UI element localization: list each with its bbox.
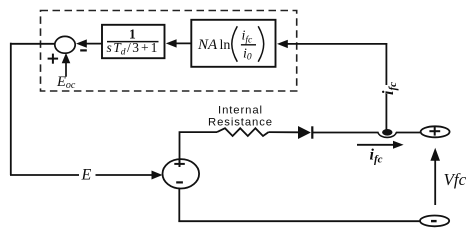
transfer function block 1/(sTd/3+1) — [102, 25, 165, 58]
label ifc (rotated) on sense wire — [380, 82, 399, 95]
wire from source top to main rail — [180, 132, 218, 158]
svg-text:Internal: Internal — [218, 105, 263, 117]
wire: ifc sense vertical — [385, 43, 387, 131]
svg-text:Resistance: Resistance — [208, 116, 273, 128]
wire from resistor to diode — [269, 131, 299, 133]
svg-text:NA: NA — [197, 37, 218, 53]
svg-text:ln: ln — [220, 38, 231, 53]
wire: left feedback horizontal into summing junction — [10, 43, 56, 45]
resistor R_internal zigzag — [217, 128, 269, 136]
arrow E_oc into summing junction — [62, 53, 71, 77]
bottom rail wire — [178, 220, 420, 222]
wire: E wire bottom-left horizontal — [10, 174, 156, 176]
svg-text:E: E — [81, 166, 92, 183]
arrowhead into source from E wire — [152, 171, 163, 180]
plus output terminal — [421, 126, 450, 137]
minus output terminal — [420, 216, 449, 227]
voltage source E circle — [163, 159, 200, 188]
wire + arrowhead from transfer block into summing junction — [76, 39, 102, 47]
wire: left feedback vertical — [10, 43, 12, 175]
activation-loss block NA ln(ifc/i0) — [191, 20, 275, 67]
wire + arrowhead from NA-ln block into transfer block — [166, 39, 191, 47]
arrow Vfc — [430, 148, 440, 205]
arrow ifc current direction — [357, 141, 404, 149]
label Internal Resistance — [208, 105, 273, 129]
summing junction — [55, 36, 75, 53]
junction node dot — [382, 129, 392, 136]
wire from hop to plus terminal — [396, 132, 421, 134]
diode D1 — [299, 126, 313, 138]
wire from diode to hop — [313, 132, 379, 134]
label E — [79, 166, 96, 183]
wire from source bottom to bottom rail — [178, 188, 180, 222]
dashed subsystem box — [41, 11, 297, 92]
wire + arrowhead from ifc sense line into NA-ln block — [277, 40, 387, 48]
svg-text:Vfc: Vfc — [444, 170, 467, 189]
plus sign at summing junction — [48, 54, 59, 64]
svg-text:sTd/3+1: sTd/3+1 — [107, 40, 158, 58]
minus sign at summing junction — [80, 49, 87, 51]
wire hop arc under junction node — [378, 132, 397, 137]
